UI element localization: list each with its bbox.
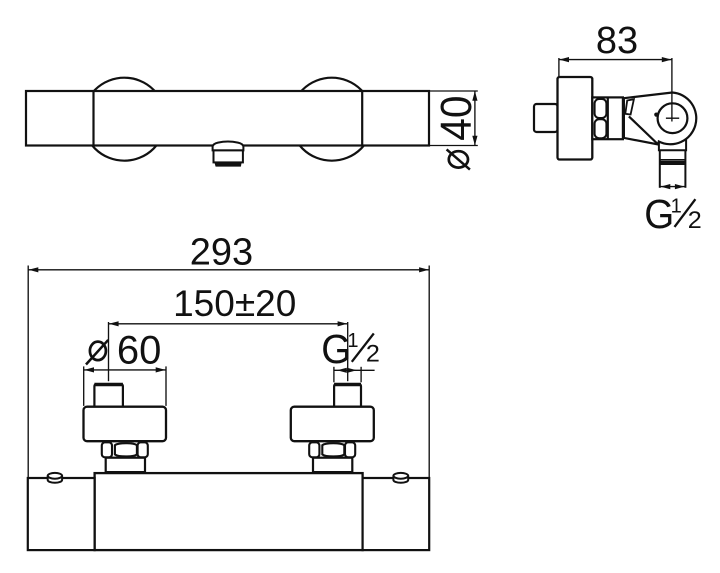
small dot detail on inner circle — [654, 113, 658, 117]
dimension line dia-60 with arrows — [84, 369, 166, 371]
extension line left of dia-60 — [83, 366, 85, 406]
svg-text:2: 2 — [366, 341, 380, 368]
extension line left of 83 — [558, 58, 560, 77]
outlet pipe thread black band — [660, 161, 685, 165]
extension line right of G1/2 — [360, 367, 362, 383]
svg-text:83: 83 — [596, 20, 638, 62]
extension line right of dia-60 — [165, 366, 167, 406]
extension line left of 293 — [27, 266, 29, 478]
center cross mark — [666, 117, 679, 119]
right knob hex nut — [309, 442, 355, 457]
right knob separation line — [361, 91, 363, 146]
outlet spout body — [214, 150, 243, 162]
label dia symbol for 60 — [86, 340, 108, 365]
svg-text:1: 1 — [671, 196, 682, 218]
left end-cap separation line — [92, 91, 94, 146]
svg-text:1: 1 — [347, 330, 358, 352]
extension line right of 150 (knob axis) — [347, 322, 349, 381]
hex nut and washer block (side view) — [592, 97, 623, 139]
extension line right of 83 down to head center — [671, 58, 673, 122]
outlet spout cap — [213, 142, 244, 151]
left fixing peg — [48, 476, 62, 483]
left knob collar — [106, 458, 145, 472]
right knob circle (front view) — [290, 78, 373, 161]
extension line left of 150 (knob axis) — [108, 322, 110, 381]
right knob stem — [334, 384, 361, 406]
swivel head body (side view) — [624, 93, 696, 145]
thread dimension double arrow — [661, 186, 685, 188]
hex nut upper facet — [595, 99, 607, 118]
left knob body — [84, 407, 167, 442]
left wing (plan view) — [28, 478, 95, 550]
left knob stem — [94, 384, 123, 406]
svg-text:150±20: 150±20 — [173, 283, 296, 324]
joint diagonal edge — [629, 116, 658, 144]
dimension line 83 with arrows — [559, 59, 672, 61]
inner circle of head — [658, 103, 688, 133]
outlet pipe (side view) — [659, 150, 661, 188]
extension line bottom for dia-40 — [429, 145, 478, 147]
bar body (front view) — [26, 91, 429, 146]
right knob body — [291, 407, 374, 442]
right knob collar — [313, 458, 352, 472]
dimension line 150+-20 with arrows — [109, 323, 348, 325]
extension line left of G1/2 — [333, 367, 335, 383]
right fixing peg — [393, 476, 408, 483]
svg-text:40: 40 — [432, 96, 481, 141]
svg-text:293: 293 — [190, 231, 253, 273]
dimension line 293 with arrows — [28, 269, 429, 271]
extension line right of 293 — [428, 266, 430, 478]
label dia symbol (rotated) — [447, 149, 470, 169]
left knob circle (front view) — [83, 78, 166, 161]
wall escutcheon plate (side view) — [558, 77, 593, 160]
dimension line dia-40 vertical with arrows — [474, 91, 476, 146]
wall supply pipe (side view) — [534, 104, 558, 132]
left knob hex nut — [102, 442, 148, 457]
adjuster tab — [625, 99, 634, 114]
svg-text:2: 2 — [688, 207, 702, 234]
extension line top for dia-40 — [429, 90, 478, 92]
svg-text:60: 60 — [117, 328, 161, 372]
outlet pipe collar (behind head) — [659, 139, 686, 150]
right wing (plan view) — [363, 478, 430, 550]
outlet aerator black band — [214, 162, 241, 166]
hex nut lower facet — [595, 119, 607, 138]
central body (plan view) — [95, 473, 363, 550]
dimension line G1/2 with arrows and tail — [334, 369, 375, 371]
